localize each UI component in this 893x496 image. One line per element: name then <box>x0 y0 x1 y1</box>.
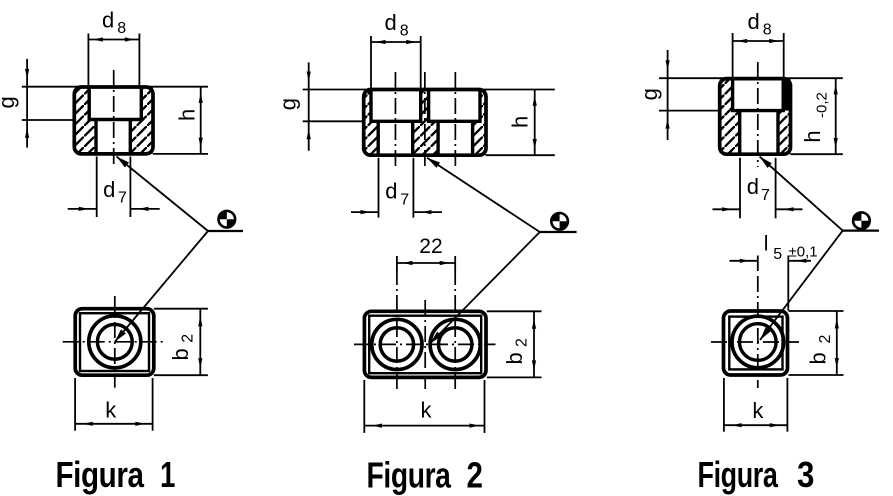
figura 2 bottom view centerlines <box>354 269 496 389</box>
svg-text:8: 8 <box>117 20 126 37</box>
figura 1 section hatch left wall <box>74 87 96 154</box>
svg-text:2: 2 <box>179 334 196 343</box>
figura 2 left counterbore circle <box>372 319 422 369</box>
figura 3 bottom view inner edge <box>729 317 782 370</box>
figura 3 dimension b2 <box>789 311 844 375</box>
figura 2 dimension d7 <box>351 158 442 218</box>
figura 1 hole d7 walls <box>96 120 130 154</box>
figura 2 dimension g <box>276 62 311 150</box>
figura 1 counterbore d8 recess <box>89 87 141 120</box>
figura 2 counterbore floor extension line <box>303 120 364 122</box>
figura 1 dimension h <box>175 87 203 154</box>
figura 2 leader lines <box>427 158 577 344</box>
figura 3 bottom view centerlines <box>711 276 799 388</box>
svg-text:Figura: Figura <box>698 454 779 495</box>
figura 3 dimension g <box>637 50 670 140</box>
figura 3 datum target symbol <box>853 212 870 229</box>
figura 1 bottom view inner edge <box>80 313 149 371</box>
figura 1 section centerline <box>113 70 115 167</box>
svg-text:1: 1 <box>160 454 175 495</box>
figura 2 dimension k <box>364 380 484 433</box>
figura 3 bottom edge extension line <box>791 153 843 155</box>
figura 3 counterbore floor extension line <box>659 110 720 112</box>
figura 1 datum target symbol <box>219 211 236 228</box>
figura 3 section hatch right lower wall <box>778 111 791 155</box>
figura 3 dimension l5 <box>730 233 818 311</box>
svg-text:±0,1: ±0,1 <box>789 244 818 261</box>
svg-text:d: d <box>385 10 397 35</box>
svg-text:k: k <box>752 398 764 423</box>
figura 2 bottom edge extension line <box>486 154 555 156</box>
svg-text:7: 7 <box>761 187 770 204</box>
svg-text:2: 2 <box>514 338 531 347</box>
svg-text:b: b <box>806 352 831 364</box>
figura 1 dimension d8 <box>88 7 139 86</box>
figura 1 bottom edge extension line <box>153 153 208 155</box>
svg-text:22: 22 <box>419 235 442 258</box>
figura 2 section hatch center wall <box>413 90 438 156</box>
figura 3 bottom view outer outline <box>724 311 788 375</box>
figura 1 counterbore circle d8 <box>89 316 141 368</box>
figura 3 hole circle <box>740 324 777 361</box>
figura 2 right counterbore recess <box>429 90 480 122</box>
figura 1 dimension g <box>0 59 29 148</box>
svg-text:8: 8 <box>763 21 772 38</box>
figura 1 bottom view outer outline <box>75 309 154 376</box>
figura 2 section hatch right wall <box>473 90 486 156</box>
svg-text:g: g <box>637 88 662 100</box>
figura 3 dimension k <box>724 378 788 432</box>
svg-text:h: h <box>508 116 533 128</box>
figura 1 label <box>56 454 176 495</box>
figura 2 section centerlines <box>395 72 455 168</box>
svg-text:k: k <box>105 398 117 423</box>
svg-text:l: l <box>764 233 769 256</box>
svg-text:2: 2 <box>467 455 483 496</box>
figura 3 top edge extension line <box>659 77 843 79</box>
svg-text:3: 3 <box>797 454 814 495</box>
svg-text:Figura: Figura <box>56 454 145 495</box>
figura 2 left hole circle <box>380 328 413 361</box>
figura 1 leader lines <box>115 157 243 342</box>
figura 3 body outline <box>720 79 791 155</box>
figura 3 section hatch left wall <box>720 79 740 155</box>
svg-text:d: d <box>385 179 397 204</box>
figura 2 top edge extension line <box>303 89 555 91</box>
figura 2 dimension b2 <box>487 311 542 377</box>
figura 2 right counterbore circle <box>430 319 480 369</box>
figura 3 leader lines <box>760 157 879 340</box>
figura 1 hole circle d7 <box>97 324 132 359</box>
svg-text:-0,2: -0,2 <box>814 92 831 118</box>
svg-text:g: g <box>276 98 301 110</box>
figura 1 dimension k <box>75 378 153 431</box>
figura 2 datum target symbol <box>551 213 568 230</box>
figura 1 dimension d7 <box>68 157 160 218</box>
svg-text:b: b <box>168 348 193 360</box>
svg-text:g: g <box>0 96 19 108</box>
svg-text:Figura: Figura <box>367 455 452 496</box>
figura 2 body outline <box>364 90 486 156</box>
svg-text:d: d <box>103 177 115 202</box>
figura 1 top edge extension line <box>22 86 208 88</box>
figura 2 dimension h <box>508 90 537 156</box>
figura 3 counterbore circle <box>732 316 784 368</box>
figura 3 section centerline <box>757 62 759 167</box>
figura 1 bottom view centerlines <box>63 296 164 388</box>
figura 2 bottom view inner edge <box>369 316 481 374</box>
svg-text:7: 7 <box>118 189 127 206</box>
svg-text:h: h <box>800 130 825 142</box>
figura 2 dimension 22 <box>397 235 455 270</box>
svg-text:d: d <box>102 7 114 32</box>
svg-text:2: 2 <box>817 335 834 344</box>
figura 3 counterbore recess <box>733 79 784 111</box>
figura 2 section hatch left wall <box>364 90 379 156</box>
svg-text:7: 7 <box>400 191 409 208</box>
figura 1 dimension b2 <box>154 309 208 376</box>
svg-text:8: 8 <box>400 22 409 39</box>
figura 2 right hole circle <box>439 328 472 361</box>
figura 3 dimension d7 <box>713 158 803 219</box>
svg-text:5: 5 <box>773 246 782 263</box>
svg-text:d: d <box>747 174 759 199</box>
figura 2 bottom view outer outline <box>364 311 486 377</box>
figura 2 dimension d8 <box>371 10 421 89</box>
figura 3 hole walls <box>740 111 778 155</box>
figura 3 section right top wall solid <box>782 79 791 111</box>
svg-text:b: b <box>502 352 527 364</box>
figura 1 counterbore floor extension line <box>22 119 75 121</box>
svg-text:d: d <box>748 9 760 34</box>
figura 1 body outline <box>74 87 153 154</box>
figura 3 dimension h with tolerance <box>800 78 838 154</box>
svg-text:k: k <box>421 398 433 423</box>
figura 2 left counterbore recess <box>371 90 421 122</box>
figura 3 dimension d8 <box>733 9 784 78</box>
figura 2 hole walls <box>378 121 472 155</box>
figura 1 section hatch right wall <box>130 87 153 154</box>
figura 2 label <box>367 455 483 496</box>
figura 3 label <box>698 454 815 495</box>
svg-text:h: h <box>175 109 200 121</box>
